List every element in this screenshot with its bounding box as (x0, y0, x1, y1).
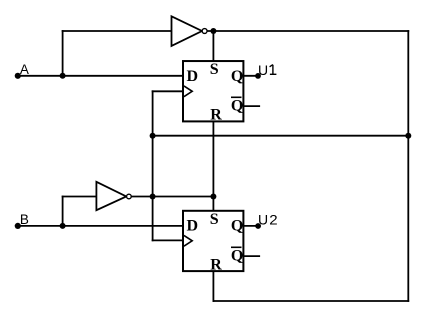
wire B junction to inverter2 vertical (62, 197, 64, 226)
node B terminal (15, 223, 21, 229)
node A terminal (15, 73, 21, 79)
wire inverter1 output to right edge (208, 30, 408, 32)
svg-text:B: B (20, 212, 29, 227)
svg-text:S: S (210, 211, 219, 228)
wire bottom horizontal (213, 300, 408, 302)
flip-flop U2 (183, 211, 243, 274)
wire mid horizontal net (153, 135, 409, 137)
node inverter1 output junction (210, 28, 216, 34)
wire A input horizontal (17, 75, 183, 77)
wire clock U1 horizontal (153, 90, 183, 92)
svg-text:S: S (210, 61, 219, 78)
svg-text:D: D (187, 68, 199, 85)
wire Q U2 stub (243, 225, 258, 227)
wire to inverter1 input (63, 30, 172, 32)
wire clock U2 horizontal (153, 239, 183, 241)
node A junction (60, 73, 66, 79)
flip-flop U1 clock triangle (184, 86, 192, 97)
node B junction (60, 223, 66, 229)
inverter 2 (NOT gate on input B) (96, 182, 131, 210)
wire R pin U1 to inverter2 net vertical (212, 121, 214, 196)
node inverter2 / S2 junction (210, 194, 216, 200)
flip-flop U2 clock triangle (184, 235, 192, 246)
inverter 2 triangle (96, 182, 126, 210)
wire B input horizontal (17, 225, 183, 227)
wire Qbar U1 stub (243, 105, 259, 107)
inverter 1 triangle (172, 16, 203, 46)
wire S pin U2 vertical (212, 197, 214, 211)
wire R pin U2 vertical (212, 271, 214, 301)
inverter 2 output bubble (127, 194, 132, 199)
wire inverter2 output horizontal (132, 196, 214, 198)
wire S pin U1 vertical (212, 31, 214, 61)
node right side junction (405, 133, 411, 139)
flip-flop U2 body (183, 211, 243, 271)
svg-text:2: 2 (269, 212, 278, 228)
svg-text:Q: Q (231, 218, 243, 235)
flip-flop U1 body (183, 61, 243, 121)
wire to inverter2 input (63, 196, 97, 198)
inverter 1 output bubble (202, 29, 207, 34)
node clock bus / inverter2 net junction (150, 194, 156, 200)
node clock bus / mid net junction (150, 133, 156, 139)
svg-text:Q: Q (231, 68, 243, 85)
wire Qbar U2 stub (243, 255, 259, 257)
wire A junction to inverter1 vertical (62, 31, 64, 76)
flip-flop U1 (183, 61, 243, 124)
svg-text:Q: Q (231, 248, 243, 265)
svg-text:Q: Q (231, 98, 243, 115)
svg-text:A: A (20, 62, 29, 77)
wire clock bus vertical (152, 91, 154, 240)
wire Q U1 stub (243, 75, 258, 77)
node Q U1 terminal (255, 73, 261, 79)
svg-text:D: D (187, 218, 199, 235)
svg-text:R: R (210, 256, 222, 273)
node Q U2 terminal (255, 223, 261, 229)
wire right side vertical (407, 31, 409, 301)
svg-text:R: R (210, 107, 222, 124)
inverter 1 (NOT gate on input A) (172, 16, 208, 46)
